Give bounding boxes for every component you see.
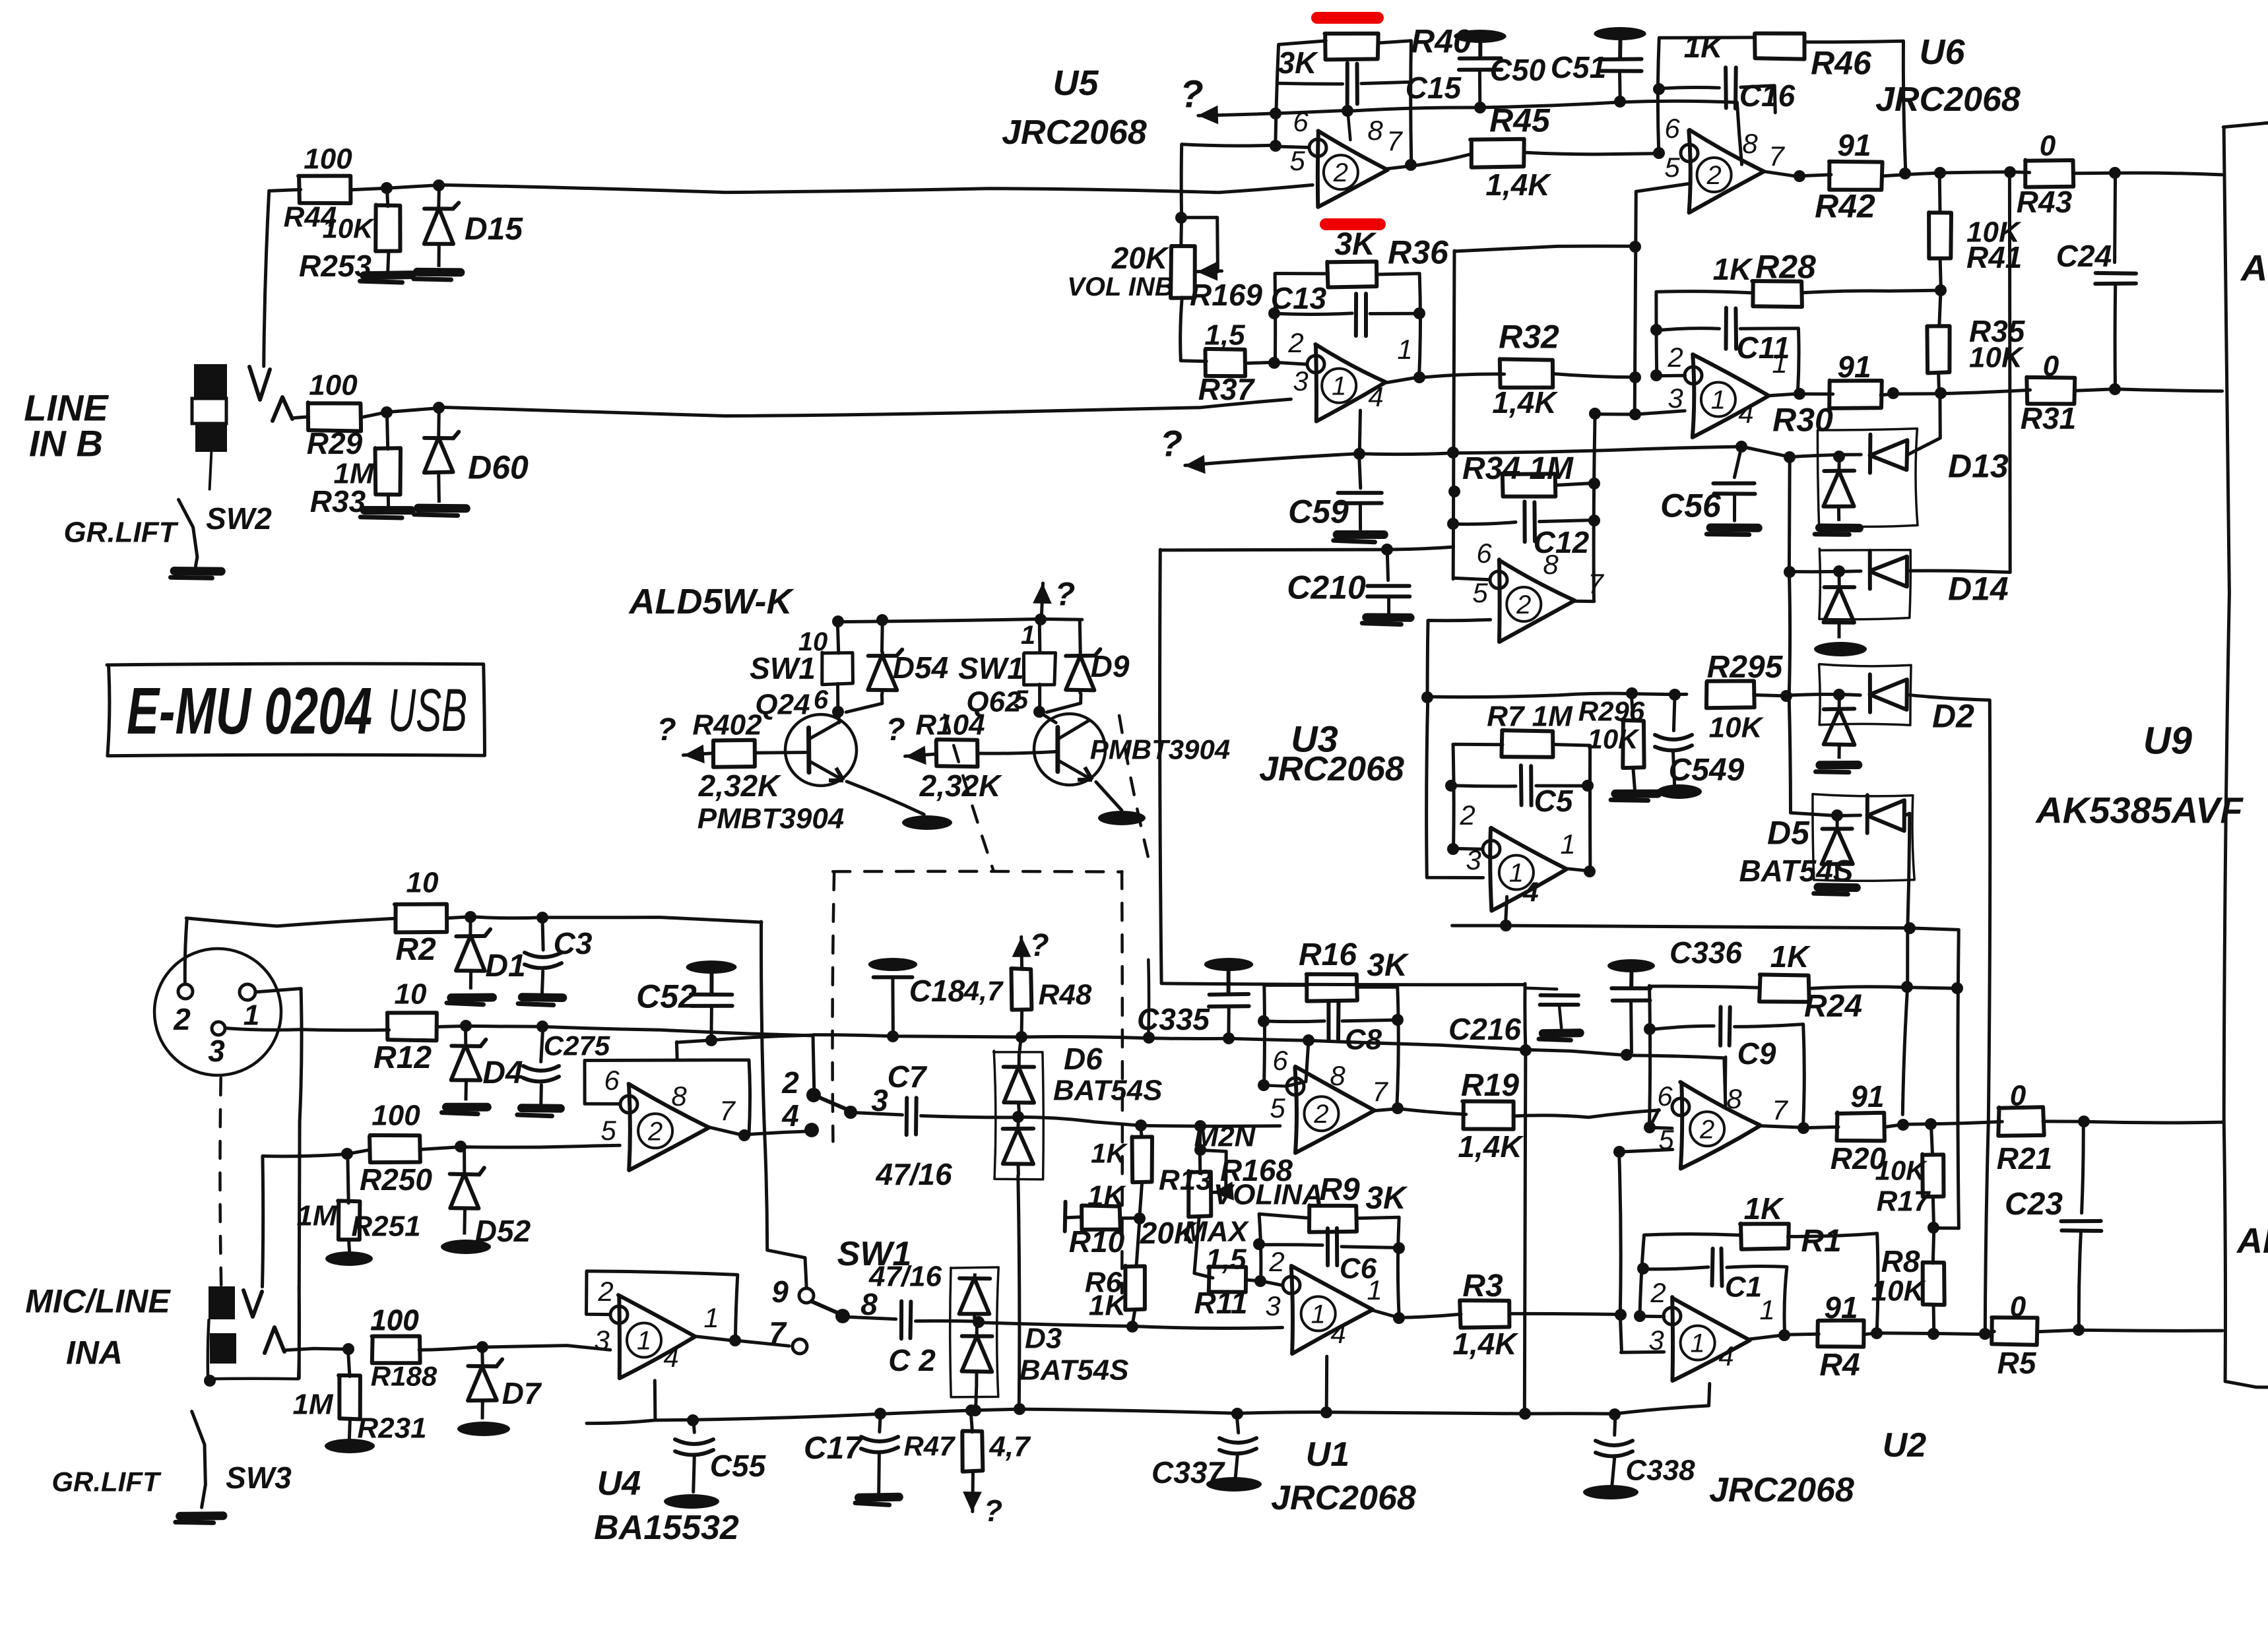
wire R43 out — [2074, 173, 2222, 175]
svg-text:2: 2 — [1268, 1246, 1284, 1277]
svg-text:2: 2 — [597, 1276, 613, 1307]
capacitor C3 — [525, 953, 562, 957]
svg-text:2: 2 — [1706, 161, 1721, 190]
wire C216 gnd stem — [1559, 1007, 1561, 1028]
svg-text:1K: 1K — [1744, 1191, 1785, 1226]
wire Q62 collector — [1039, 712, 1056, 723]
dashed SW1 top edge — [833, 870, 1122, 873]
wire D2 row — [1786, 694, 1860, 695]
outline D13 — [1817, 429, 1918, 527]
wire D9 top — [1078, 620, 1082, 652]
svg-text:20K: 20K — [1111, 241, 1169, 275]
junction C13 left — [1268, 307, 1280, 319]
svg-text:1K: 1K — [1089, 1289, 1128, 1321]
wire R17 top — [1931, 1123, 1932, 1154]
svg-text:7: 7 — [1772, 1094, 1788, 1125]
junction C15 drop — [1342, 105, 1353, 117]
arrow Q62 base out — [905, 754, 934, 756]
svg-text:7: 7 — [1386, 125, 1403, 156]
svg-text:5: 5 — [1014, 685, 1029, 714]
junction C1 left — [1637, 1263, 1649, 1274]
switch SW1 coil A — [822, 652, 853, 685]
op-amp U3 part 2 — [1499, 559, 1575, 642]
capacitor C5 — [1519, 765, 1524, 805]
ground D52 — [441, 1240, 491, 1254]
wire C59 stem — [1359, 454, 1361, 488]
svg-text:1: 1 — [1509, 859, 1524, 888]
diode D9 — [1078, 652, 1082, 656]
ground R253 — [364, 275, 412, 276]
svg-text:JRC2068: JRC2068 — [1875, 80, 2021, 119]
ground R251 — [325, 1251, 373, 1266]
resistor R250 — [370, 1135, 420, 1162]
junction U6-2 out — [1794, 170, 1805, 182]
wire R250 in — [263, 1150, 370, 1287]
junction D2 — [1833, 689, 1845, 701]
svg-text:2,32K: 2,32K — [919, 769, 1003, 803]
pin 1 XLR — [240, 984, 255, 1000]
wire C7 to D6 — [921, 1116, 1018, 1117]
contact 3 SW1 — [844, 1106, 857, 1119]
resistor R11 — [1209, 1267, 1247, 1292]
junction M2N2 — [1194, 1144, 1206, 1156]
wire C5 row — [1451, 786, 1516, 786]
arrow caret input — [273, 397, 292, 421]
resistor R46 — [1755, 34, 1804, 59]
wire U1-2 out — [1374, 1109, 1398, 1111]
svg-text:AK5385AVF: AK5385AVF — [2034, 790, 2244, 831]
resistor R2 — [395, 904, 447, 933]
svg-text:D14: D14 — [1948, 571, 2009, 608]
svg-text:10K: 10K — [1969, 341, 2025, 373]
ground Q62 — [1098, 811, 1146, 825]
wire C549 stem — [1673, 694, 1675, 730]
svg-text:8: 8 — [1726, 1083, 1742, 1114]
wire U3-2 out — [1575, 600, 1594, 603]
arrow Q24 base out — [683, 753, 713, 755]
resistor R43 — [2025, 160, 2073, 187]
svg-text:5: 5 — [1472, 577, 1488, 608]
wire R296 gnd stem — [1633, 767, 1635, 789]
svg-text:47/16: 47/16 — [875, 1157, 952, 1191]
wire D3 bottom — [976, 1384, 977, 1408]
wire R168 wiper loop — [1200, 1150, 1226, 1191]
svg-text:1: 1 — [1759, 1294, 1774, 1325]
capacitor C11 — [1724, 308, 1728, 349]
wire U2-2 fb left — [1649, 986, 1650, 1128]
wire C55 gnd stem — [694, 1456, 695, 1492]
junction pin4/C59 — [1353, 448, 1365, 460]
ground D2 — [1820, 761, 1858, 769]
wire R20 out — [1884, 1121, 2002, 1127]
wire R19 out — [1513, 1110, 1660, 1117]
svg-text:8: 8 — [1330, 1060, 1345, 1091]
pin6 circle U2-2 — [1672, 1098, 1689, 1116]
svg-text:1: 1 — [1690, 1329, 1704, 1358]
wire C216 stem — [1525, 988, 1557, 990]
resistor R10 — [1082, 1205, 1120, 1230]
svg-text:9: 9 — [771, 1274, 789, 1309]
junction R13 top — [1135, 1119, 1147, 1131]
wire C56 gnd stem — [1733, 495, 1736, 521]
ground D60 — [418, 504, 467, 513]
svg-text:2: 2 — [1699, 1115, 1714, 1144]
junction bus/D13 — [1784, 451, 1796, 463]
svg-text:2: 2 — [1287, 327, 1303, 358]
wire U5-2 fb left — [1276, 41, 1326, 146]
junction R188/D7 — [476, 1341, 488, 1353]
svg-text:4,7: 4,7 — [988, 1430, 1031, 1463]
svg-text:100: 100 — [304, 142, 352, 175]
wire U2-1 pin4 — [1709, 1383, 1710, 1405]
svg-text:4: 4 — [781, 1098, 799, 1133]
junction M2N — [1194, 1120, 1206, 1132]
svg-text:M2N: M2N — [1194, 1120, 1256, 1152]
junction rail/D6 — [1014, 1403, 1025, 1415]
wire R5 out — [2037, 1330, 2222, 1332]
resistor R29 — [308, 402, 361, 431]
svg-text:R24: R24 — [1804, 989, 1862, 1024]
svg-text:C216: C216 — [1448, 1012, 1521, 1046]
junction U5-1 out — [1413, 371, 1425, 383]
wire R296 stem — [1631, 693, 1633, 720]
svg-text:1: 1 — [1772, 348, 1787, 379]
op-amp U2 part 1 — [1672, 1297, 1750, 1381]
junction R250/R251 — [341, 1148, 353, 1160]
wire C16 right — [1741, 86, 1775, 113]
resistor R41 — [1929, 212, 1951, 259]
svg-text:R36: R36 — [1388, 234, 1449, 271]
resistor R4 — [1817, 1321, 1863, 1347]
svg-text:D15: D15 — [465, 212, 523, 247]
wire R24 left — [1649, 986, 1760, 988]
wire R44 to junction — [350, 185, 438, 190]
wire R2 out — [447, 917, 761, 922]
arrow pot wiper — [1197, 269, 1222, 273]
junction R44/R253 — [381, 182, 393, 194]
svg-text:1,5: 1,5 — [1206, 1243, 1247, 1275]
junction rail/C18 — [887, 1030, 899, 1042]
wire out to R32 — [1419, 374, 1504, 377]
wire D54 join — [846, 695, 882, 712]
svg-text:USB: USB — [388, 677, 467, 744]
wire pin6 stub U3-2 — [1453, 578, 1490, 580]
svg-text:C23: C23 — [2005, 1187, 2063, 1222]
wire R6 col — [1136, 1218, 1140, 1265]
svg-text:BAT54S: BAT54S — [1053, 1074, 1162, 1106]
svg-text:1: 1 — [1021, 621, 1035, 650]
ground C17 — [859, 1497, 899, 1497]
ground D13 — [1819, 524, 1859, 533]
arrow ALD supply — [1041, 583, 1043, 618]
svg-text:D6: D6 — [1064, 1042, 1103, 1076]
junction rail/C216b — [1519, 1408, 1531, 1420]
resistor R33 — [375, 448, 401, 495]
wire pin8 stub U2-2 — [1724, 1057, 1727, 1103]
diode D54 — [881, 652, 885, 656]
svg-text:1M: 1M — [292, 1388, 333, 1420]
junction R34 right — [1588, 478, 1600, 489]
svg-text:4,7: 4,7 — [963, 976, 1004, 1007]
junction R32/pin5 — [1629, 371, 1641, 383]
ground R296 — [1615, 790, 1658, 798]
junction R42/fb — [1899, 168, 1911, 179]
wire R8 top — [1933, 1228, 1934, 1263]
wire pin3 U1-1 — [978, 1323, 1282, 1329]
wire R4 out — [1865, 1331, 1994, 1334]
wire R1 right — [1788, 1234, 1878, 1334]
wire R46 right — [1805, 41, 1906, 172]
wire R34/C12 right col — [1594, 414, 1595, 601]
wire R10 in — [1066, 1217, 1082, 1218]
wire R44 left drop — [264, 189, 301, 366]
pin2 circle U3-1 — [1483, 840, 1500, 858]
svg-text:GR.LIFT: GR.LIFT — [51, 1466, 162, 1497]
wire C12 right — [1539, 520, 1594, 521]
wire caret to R29 — [292, 417, 308, 418]
junction D3 mid — [973, 1316, 985, 1328]
transistor Q24 — [785, 714, 857, 786]
wire out to R20 — [1803, 1127, 1839, 1127]
junction rail/x1741 — [1143, 1032, 1155, 1044]
svg-text:7: 7 — [719, 1095, 736, 1126]
wire R35 top — [1939, 290, 1941, 327]
svg-text:7: 7 — [1768, 141, 1785, 172]
wire C55 stem — [694, 1420, 694, 1432]
title box frame — [107, 664, 485, 756]
svg-text:R4: R4 — [1819, 1348, 1860, 1383]
wire C210 gnd stem — [1387, 598, 1390, 613]
pin6 circle U3-2 — [1490, 571, 1507, 588]
svg-text:C 2: C 2 — [888, 1343, 936, 1377]
wire U4-1 fb loop — [587, 1271, 738, 1340]
junction Q62 collector — [1033, 706, 1045, 718]
svg-text:2: 2 — [1333, 158, 1348, 187]
capacitor C337 — [1219, 1438, 1256, 1443]
junction rail/C55 — [687, 1414, 699, 1426]
capacitor C12 — [1522, 501, 1526, 542]
resistor R188 — [372, 1337, 420, 1364]
wire U4-2 out — [709, 1127, 745, 1136]
svg-text:D7: D7 — [502, 1376, 542, 1410]
wire C338 gnd stem — [1612, 1458, 1615, 1486]
wire R3 out — [1510, 1313, 1621, 1314]
svg-text:JRC2068: JRC2068 — [1259, 750, 1404, 788]
svg-text:6: 6 — [1272, 1045, 1288, 1076]
wire U3col to U6pin5 — [1455, 246, 1636, 251]
wire R17 bottom — [1933, 1196, 1933, 1228]
resistor R231 — [339, 1375, 360, 1420]
wire out to contact7 — [736, 1340, 789, 1346]
svg-text:R7 1M: R7 1M — [1487, 700, 1573, 732]
junction U4-1 out — [729, 1335, 741, 1346]
wire pin6 drop — [1287, 1040, 1309, 1086]
wire C1 right — [1727, 1266, 1787, 1334]
junction arrow1/fb — [1270, 108, 1281, 119]
svg-text:R2: R2 — [395, 932, 436, 967]
svg-text:IN B: IN B — [29, 423, 103, 464]
junction U2-1 out — [1778, 1329, 1790, 1341]
capacitor C336 — [1607, 959, 1655, 972]
junction R30/R35 — [1935, 387, 1947, 399]
svg-text:10K: 10K — [1709, 711, 1765, 743]
wire R41 bottom — [1940, 259, 1941, 290]
ground C216 — [1543, 1028, 1580, 1038]
contact 8 SW1 — [835, 1309, 850, 1323]
svg-text:C51: C51 — [1551, 50, 1606, 84]
ground C210 — [1367, 613, 1410, 621]
resistor R251 — [338, 1201, 360, 1240]
svg-text:R30: R30 — [1772, 402, 1833, 439]
junction pin3/pin5col — [1629, 408, 1641, 420]
pin6 circle U4-2 — [620, 1096, 637, 1113]
svg-text:?: ? — [886, 712, 905, 747]
wire R251 top — [348, 1154, 348, 1203]
wire pin5 U2-2 — [1619, 1150, 1673, 1152]
ground C3 — [522, 993, 562, 1002]
op-amp U1 part 2 — [1295, 1067, 1375, 1153]
capacitor C18 — [868, 958, 917, 971]
junction pin4 U1-1 — [1320, 1406, 1332, 1418]
svg-text:4: 4 — [663, 1342, 678, 1373]
junction R41/R35 — [1935, 284, 1947, 296]
resistor R20 — [1837, 1112, 1885, 1141]
capacitor C2 — [899, 1302, 903, 1339]
wire out to R19 — [1398, 1109, 1466, 1115]
wire C210 net — [1161, 547, 1454, 550]
ground D4 — [446, 1103, 487, 1112]
svg-text:4: 4 — [1368, 381, 1383, 412]
svg-text:GR.LIFT: GR.LIFT — [63, 516, 178, 548]
wire C23 col — [2082, 1121, 2084, 1213]
svg-text:VOLINA: VOLINA — [1214, 1178, 1323, 1211]
boundary U9 top corner — [2223, 123, 2268, 127]
wire M2N drop — [1198, 1127, 1202, 1172]
wire R13 down — [1140, 1183, 1142, 1218]
junction rail/C336 — [1621, 1049, 1633, 1061]
junction bus/D14 — [1784, 566, 1796, 578]
svg-text:C16: C16 — [1739, 79, 1796, 113]
capacitor C549 — [1655, 735, 1692, 739]
diode D6a — [1018, 1055, 1021, 1067]
svg-text:1,4K: 1,4K — [1492, 385, 1558, 420]
connector XLR circle — [154, 949, 281, 1075]
op-amp U4 part 2 — [629, 1084, 709, 1170]
wire R7 loop — [1453, 744, 1503, 849]
svg-text:C7: C7 — [888, 1059, 928, 1094]
junction rail/C52 — [705, 1034, 717, 1046]
wire U3-1 pin4 — [1505, 897, 1507, 926]
svg-text:100: 100 — [370, 1304, 419, 1336]
junction U6-1 out — [1794, 388, 1805, 400]
junction pin6 U1-2 — [1258, 1079, 1270, 1091]
resistor R44 — [298, 176, 350, 204]
dashed link Q62 — [1119, 716, 1148, 857]
svg-text:R45: R45 — [1489, 102, 1551, 139]
junction pin2 U5-1 — [1268, 357, 1280, 369]
contact 9 SW1 — [799, 1288, 814, 1303]
svg-text:91: 91 — [1837, 350, 1871, 384]
svg-text:E-MU 0204: E-MU 0204 — [127, 674, 372, 748]
svg-text:10K: 10K — [1587, 724, 1640, 755]
svg-text:D3: D3 — [1025, 1322, 1062, 1354]
wire C1 row — [1644, 1267, 1708, 1269]
wire U4-1 pin4 — [653, 1381, 657, 1420]
svg-text:C56: C56 — [1660, 488, 1722, 524]
svg-text:R12: R12 — [373, 1040, 432, 1075]
svg-text:2,32K: 2,32K — [698, 769, 782, 803]
resistor R47 — [962, 1431, 983, 1472]
arrow R47 down — [971, 1470, 975, 1511]
wire C275 stem — [541, 1026, 543, 1062]
junction R30/C11 — [1887, 387, 1899, 399]
wire U6-2 pin5 — [1635, 183, 1689, 414]
wire connector stem — [210, 453, 212, 489]
arrow R48 supply — [1020, 937, 1023, 969]
svg-text:SW1: SW1 — [958, 651, 1024, 685]
pin6 circle U6-2 — [1681, 144, 1698, 162]
rail ground A — [587, 1406, 1709, 1424]
junction U5-2 out — [1405, 159, 1417, 171]
wire pin6 stub U5-2 — [1276, 146, 1309, 148]
junction C5 left — [1445, 780, 1457, 792]
potentiometer R169 — [1171, 246, 1195, 298]
junction R24/x2968 — [1951, 982, 1963, 994]
svg-text:2: 2 — [173, 1002, 191, 1036]
capacitor C13 — [1354, 294, 1358, 336]
diode D6b — [1016, 1117, 1020, 1129]
wire R9 loop — [1259, 1214, 1309, 1280]
resistor R35 — [1927, 326, 1949, 373]
wire box2 top — [1038, 620, 1042, 652]
svg-text:8: 8 — [1367, 115, 1383, 146]
junction R41 top — [1934, 167, 1946, 179]
wire box2 bottom — [1038, 684, 1041, 711]
diode D13b — [1837, 456, 1840, 471]
dashed combo link — [220, 1078, 221, 1286]
dashed SW1 left edge — [833, 873, 835, 1141]
wire D13 row — [1790, 455, 1861, 457]
wire R47 stem — [971, 1410, 972, 1431]
svg-text:3K: 3K — [1334, 227, 1377, 262]
diode D4 — [464, 1025, 467, 1046]
junction rail/D3 — [969, 1404, 981, 1416]
switch SW1 coil B — [1023, 653, 1055, 685]
wire C337 stem — [1237, 1414, 1239, 1433]
resistor R42 — [1829, 162, 1883, 190]
wire R30 out — [1881, 390, 2030, 395]
svg-text:U6: U6 — [1919, 32, 1965, 72]
svg-text:1: 1 — [1397, 334, 1412, 365]
svg-text:4: 4 — [1718, 1340, 1733, 1371]
junction C8 left — [1258, 1015, 1270, 1027]
svg-text:C52: C52 — [636, 978, 697, 1015]
op-amp U3 part 1 — [1490, 828, 1567, 911]
svg-text:SW3: SW3 — [226, 1461, 292, 1495]
diode D3a — [973, 1273, 977, 1278]
capacitor C1 — [1712, 1249, 1713, 1286]
arrow V jack tip — [243, 1290, 262, 1317]
diode D2a — [1868, 674, 1872, 712]
wire R10 out — [1120, 1216, 1140, 1220]
wire R253 top — [387, 187, 387, 206]
svg-text:C338: C338 — [1625, 1454, 1695, 1486]
svg-text:1K: 1K — [1770, 939, 1811, 974]
junction R4/R1 — [1871, 1327, 1883, 1339]
junction ALD top 1 — [832, 615, 844, 627]
svg-text:R5: R5 — [1997, 1346, 2037, 1380]
wire R31 out — [2075, 389, 2222, 391]
